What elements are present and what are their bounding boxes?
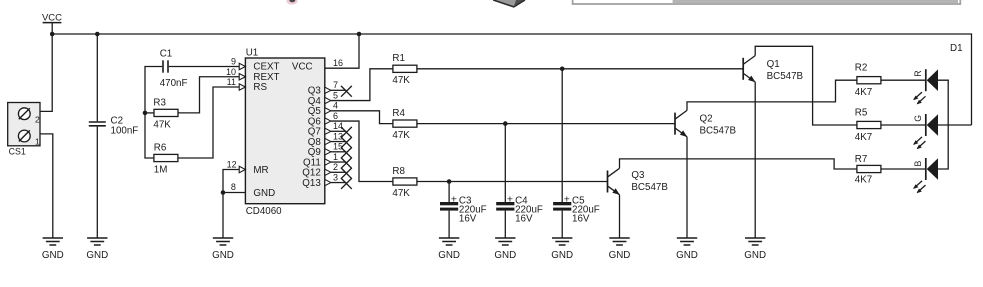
wire C2 to ground [96, 127, 98, 238]
ground CS1 [42, 238, 64, 261]
svg-text:1M: 1M [154, 164, 168, 175]
node A junction C1 R3 R6 [143, 111, 148, 116]
power VCC symbol [42, 13, 62, 35]
resistor R5 [855, 108, 881, 143]
resistor R2 [855, 63, 881, 98]
node U1 pin16 junction [357, 32, 362, 37]
svg-text:R7: R7 [855, 154, 868, 165]
svg-text:CS1: CS1 [9, 147, 26, 157]
wire U1 pin 8 GND [223, 193, 245, 239]
U1 right pin names [292, 62, 321, 189]
svg-text:Q3: Q3 [631, 170, 645, 181]
wire R3 left lead [145, 112, 154, 114]
wire R5 to LED G [881, 124, 926, 126]
wire rail to C2 [96, 34, 98, 121]
svg-text:C1: C1 [160, 48, 173, 59]
label Q2 [700, 114, 737, 137]
cropped panel fragment top right [573, 0, 961, 4]
node MR GND junction [221, 190, 226, 195]
transistor Q2 [675, 110, 687, 137]
wire R1 to Q1 base [417, 68, 743, 70]
wire R6 to U1 pin 11 RS [178, 87, 239, 158]
capacitor C2 [89, 116, 138, 137]
capacitor C3 [440, 193, 487, 224]
node VCC junction [50, 32, 55, 37]
ground Q1 [744, 238, 766, 261]
svg-text:GND: GND [609, 250, 631, 261]
wire CS1 terminal 1 to ground [30, 134, 53, 238]
node C4 junction on R4 net [503, 121, 508, 126]
wire Q3 emitter to ground [619, 195, 621, 238]
U1 no-connect stubs with X marks [331, 86, 352, 189]
svg-text:16V: 16V [572, 213, 590, 224]
svg-text:10: 10 [226, 67, 236, 77]
svg-text:CD4060: CD4060 [246, 206, 282, 217]
U1 left pin names [253, 62, 279, 199]
svg-text:R: R [913, 70, 923, 76]
wire VCC rail to LED common anode [52, 34, 971, 125]
svg-text:BC547B: BC547B [767, 71, 804, 82]
ground C3 [438, 238, 460, 261]
svg-text:47K: 47K [392, 188, 410, 199]
resistor R3 [153, 97, 178, 130]
svg-text:B: B [913, 160, 923, 166]
svg-text:12: 12 [227, 159, 237, 169]
svg-text:4K7: 4K7 [855, 87, 872, 98]
svg-text:6: 6 [333, 111, 338, 121]
wire R3 to U1 pin 10 REXT [178, 77, 239, 113]
wire R7 to LED B [881, 168, 926, 170]
IC U1 CD4060 [245, 48, 324, 217]
U1 right pin numbers [333, 58, 343, 182]
svg-text:MR: MR [253, 165, 268, 176]
wire R8 to Q3 base [417, 181, 608, 183]
svg-text:U1: U1 [246, 48, 259, 59]
svg-text:1: 1 [35, 137, 40, 147]
svg-text:+: + [564, 193, 570, 205]
label Q3 [631, 170, 668, 193]
resistor R8 [392, 166, 417, 199]
ground C2 [86, 238, 108, 261]
wire C5 to ground [561, 211, 563, 238]
wire U1 pin 6 Q6 to R8 [331, 121, 393, 181]
wire C4 to ground [504, 211, 506, 238]
resistor R1 [392, 53, 417, 86]
svg-text:8: 8 [231, 182, 236, 192]
svg-text:16V: 16V [515, 213, 533, 224]
LED D1 blue [913, 158, 938, 193]
svg-text:BC547B: BC547B [631, 182, 668, 193]
transistor Q1 [743, 56, 755, 83]
svg-text:GND: GND [42, 250, 64, 261]
svg-text:14: 14 [333, 121, 343, 131]
svg-text:Q2: Q2 [700, 114, 713, 125]
transistor Q3 [608, 168, 620, 195]
svg-text:GND: GND [212, 250, 234, 261]
capacitor C1 [160, 48, 188, 89]
wire Q2 emitter to ground [686, 137, 688, 238]
svg-text:47K: 47K [153, 119, 171, 130]
node C2 junction [95, 32, 100, 37]
wire U1 pin 12 MR to ground net [223, 170, 239, 193]
wire U1 pin 4 Q5 to R4 [331, 111, 393, 124]
svg-text:4K7: 4K7 [855, 132, 872, 143]
ground Q2 [676, 238, 698, 261]
U1 left pin numbers [226, 57, 237, 193]
wire R8 net to C3 [448, 182, 450, 203]
label Q1 [767, 59, 804, 82]
wire VCC rail to CS1 terminal 2 [30, 34, 52, 111]
svg-text:+: + [451, 193, 457, 205]
node C5 junction on R1 net [560, 67, 565, 72]
ground C4 [494, 238, 516, 261]
wire R4 to Q2 base [417, 123, 675, 125]
LED D1 red [913, 69, 938, 104]
svg-text:100nF: 100nF [111, 126, 139, 137]
svg-text:470nF: 470nF [160, 78, 188, 89]
wire Q1 collector to R5 [755, 46, 857, 125]
wire R1 net to C5 [561, 69, 563, 202]
svg-text:R5: R5 [855, 108, 868, 119]
wire R2 to LED R [881, 79, 926, 81]
svg-text:9: 9 [231, 57, 236, 67]
capacitor C5 [553, 193, 600, 224]
svg-text:GND: GND [494, 250, 516, 261]
U1 left pin wedges [239, 63, 245, 172]
wire C3 to ground [448, 211, 450, 238]
svg-text:VCC: VCC [292, 62, 313, 73]
svg-text:16: 16 [333, 58, 343, 68]
svg-text:2: 2 [35, 114, 40, 124]
svg-text:GND: GND [86, 250, 108, 261]
svg-text:RS: RS [253, 82, 267, 93]
svg-text:Q13: Q13 [302, 178, 321, 189]
svg-text:GND: GND [253, 188, 275, 199]
wire C1 to U1 pin 9 CEXT [169, 66, 239, 68]
wire U1 pin 16 VCC to rail [325, 34, 359, 68]
wire R4 net to C4 [504, 124, 506, 202]
svg-text:R6: R6 [154, 142, 167, 153]
capacitor C4 [496, 193, 543, 224]
svg-text:+: + [507, 193, 513, 205]
svg-text:7: 7 [333, 80, 338, 90]
wire LED R anode to common [938, 80, 948, 125]
svg-text:2: 2 [333, 162, 338, 172]
LED D1 green [913, 114, 938, 149]
svg-text:BC547B: BC547B [700, 126, 737, 137]
resistor R4 [392, 108, 417, 141]
wire Q1 emitter to ground [754, 82, 756, 238]
cropped 3D box corner fragment [493, 0, 525, 7]
node C3 junction on R8 net [447, 179, 452, 184]
ground U1 [212, 238, 234, 261]
ground Q3 [609, 238, 631, 261]
wire LED G anode to rail drop [938, 124, 972, 126]
svg-text:5: 5 [333, 90, 338, 100]
cropped red logo fragment top edge [286, 0, 297, 5]
svg-text:Q1: Q1 [767, 59, 780, 70]
svg-text:4: 4 [333, 101, 338, 111]
svg-text:11: 11 [227, 77, 236, 87]
svg-text:GND: GND [438, 250, 460, 261]
resistor R7 [855, 154, 881, 186]
svg-text:R2: R2 [855, 63, 868, 74]
U1 right pin wedges [325, 87, 331, 186]
svg-text:GND: GND [551, 250, 573, 261]
svg-text:GND: GND [744, 250, 766, 261]
svg-text:G: G [913, 115, 923, 122]
svg-text:R3: R3 [153, 97, 166, 108]
svg-text:GND: GND [676, 250, 698, 261]
svg-text:3: 3 [333, 172, 338, 182]
wire R6 left lead [145, 113, 154, 158]
svg-text:R8: R8 [392, 166, 405, 177]
svg-text:47K: 47K [392, 130, 410, 141]
svg-text:R1: R1 [392, 53, 405, 64]
svg-text:47K: 47K [392, 75, 410, 86]
wire U1 pin 5 Q4 to R1 [331, 69, 393, 101]
wire Q2 collector to R2 [687, 80, 857, 110]
wire LED B anode to common [938, 125, 948, 169]
resistor R6 [154, 142, 178, 175]
svg-text:R4: R4 [392, 108, 405, 119]
svg-text:4K7: 4K7 [855, 175, 872, 186]
svg-text:D1: D1 [950, 43, 963, 54]
ground C5 [551, 238, 573, 261]
connector CS1 [8, 103, 40, 157]
wire C1 left lead [145, 67, 162, 113]
svg-text:16V: 16V [459, 213, 477, 224]
wire Q3 collector to R7 [620, 159, 857, 169]
svg-text:1: 1 [333, 152, 338, 162]
